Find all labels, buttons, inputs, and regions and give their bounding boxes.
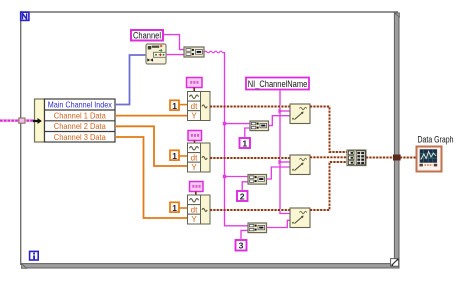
wire: index string to concat: [166, 54, 184, 56]
waveform constant W3: [190, 182, 204, 196]
build waveform BW2: [188, 143, 211, 172]
svg-text:Data Graph: Data Graph: [418, 135, 454, 145]
wire: channel 3 data (orange): [115, 137, 188, 218]
svg-text:dt: dt: [191, 153, 198, 162]
concatenate strings (top): [184, 47, 204, 57]
svg-text:Channel 1 Data: Channel 1 Data: [54, 111, 106, 120]
wire: waveform 3 to build array: [310, 162, 347, 210]
string constant 2: [237, 182, 248, 202]
svg-text:Y: Y: [191, 215, 197, 224]
wire: Channel string to concat: [164, 35, 185, 50]
wire: waveform array to graph: [366, 157, 416, 159]
svg-text:NI_ChannelName: NI_ChannelName: [248, 79, 308, 89]
concatenate strings C3: [248, 223, 267, 233]
loop iteration terminal i: [30, 251, 39, 260]
build array node: [347, 150, 366, 166]
build waveform BW3: [188, 195, 211, 224]
svg-text:1: 1: [172, 101, 177, 111]
string constant 3: [236, 230, 249, 250]
cluster input tunnel: [19, 118, 25, 123]
numeric constant 1 (dt ch3): [170, 202, 188, 213]
wire: channel 1 data (orange): [115, 115, 188, 117]
wire: channel name value 2: [267, 167, 291, 179]
wire: waveform 1 to build array: [310, 107, 347, 153]
build waveform BW1: [188, 92, 211, 121]
loop resize glyph: [391, 259, 399, 267]
unbundle input arrow: [33, 118, 42, 124]
wire: waveform 1 out: [210, 106, 290, 108]
set waveform attribute A2: [290, 155, 310, 175]
svg-text:dt: dt: [191, 205, 198, 214]
waveform constant W1: [187, 78, 203, 92]
wire: NI_ChannelName attribute name: [278, 90, 290, 214]
wire: main channel index (blue): [115, 55, 146, 105]
svg-text:Main Channel Index: Main Channel Index: [48, 101, 112, 110]
svg-text:Y: Y: [191, 163, 197, 172]
svg-text:dt: dt: [191, 102, 198, 111]
svg-text:Y: Y: [191, 112, 197, 121]
wire: waveform 3 out: [210, 209, 290, 211]
wire: channel name value 3: [267, 220, 291, 227]
string control label Channel: [131, 30, 163, 41]
output tunnel: [393, 155, 401, 161]
svg-text:3: 3: [239, 241, 244, 251]
concatenate strings C2: [248, 175, 267, 185]
svg-text:Channel: Channel: [133, 30, 161, 40]
numeric constant 1 (dt ch1): [170, 100, 188, 111]
svg-text:Channel 3 Data: Channel 3 Data: [54, 133, 106, 142]
free label NI_ChannelName: [246, 78, 309, 90]
wire: cluster input (dashed pink): [0, 119, 36, 122]
wire: waveform 2 out: [210, 157, 290, 159]
set waveform attribute A3: [290, 208, 310, 228]
svg-text:Channel 2 Data: Channel 2 Data: [54, 122, 106, 131]
svg-text:1: 1: [172, 151, 177, 161]
numeric constant 1 (dt ch2): [170, 150, 188, 161]
concatenate strings C1: [250, 121, 269, 131]
for loop border: [20, 11, 399, 268]
number-to-string function U1: [146, 44, 166, 64]
svg-text:1: 1: [172, 203, 177, 213]
svg-text:2: 2: [240, 191, 245, 201]
loop count terminal N: [21, 12, 29, 20]
string constant 1: [240, 128, 251, 148]
wire: waveform 2 to build array: [310, 156, 347, 158]
wire: channel 2 data (orange): [115, 126, 188, 166]
svg-text:1: 1: [242, 138, 247, 148]
waveform graph terminal Data Graph: [417, 147, 442, 172]
wire: concatenated base string (wavy then down): [205, 51, 251, 226]
set waveform attribute A1: [290, 104, 310, 124]
unbundle by name node: [35, 99, 116, 142]
waveform constant W2: [188, 131, 202, 144]
wire: channel name value 1: [269, 116, 291, 126]
